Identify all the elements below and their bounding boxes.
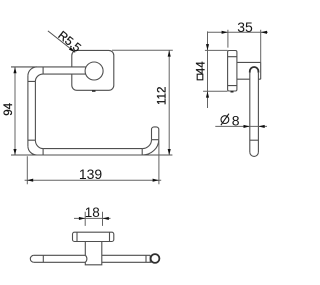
wall plate (front) bbox=[72, 50, 114, 90]
bar (bottom view) bottom edge bbox=[34, 261, 152, 263]
plate side inner lines bbox=[228, 57, 237, 86]
top-left bend inner arc bbox=[35, 74, 43, 81]
bottom-right tangent chords bbox=[142, 140, 159, 155]
tube section arc (thick) bbox=[250, 67, 259, 73]
svg-text:44: 44 bbox=[195, 61, 207, 74]
post (side) top edge bbox=[237, 61, 261, 63]
bottom-right bend outer arc bbox=[142, 140, 159, 155]
arrow 94 top bbox=[13, 67, 16, 73]
label dia symbol bbox=[221, 114, 229, 126]
plate bottom center tick bbox=[92, 90, 96, 92]
svg-text:18: 18 bbox=[85, 205, 100, 220]
wall plate (side) bbox=[228, 51, 237, 92]
post bottom edge segments bbox=[237, 78, 261, 80]
plate side bottom tick bbox=[231, 91, 234, 93]
plate bottom-view inner lines bbox=[77, 232, 110, 241]
bar tangent chord bbox=[250, 139, 259, 141]
mounting rose circle bbox=[85, 62, 103, 80]
bottom-left bend inner arc bbox=[35, 140, 43, 148]
ring bottom bar top edge bbox=[43, 148, 142, 150]
bottom-left tangent chords bbox=[28, 140, 43, 155]
arrow 44 bottom (outside, pointing up) bbox=[206, 91, 209, 97]
arrow 139 left bbox=[27, 179, 33, 182]
arm top edge + 94 extension line bbox=[11, 66, 86, 68]
dim 35 line bbox=[208, 31, 268, 33]
svg-text:8: 8 bbox=[232, 112, 240, 128]
dim 18 extension lines bbox=[85, 212, 102, 226]
dim 112 line bbox=[168, 50, 170, 155]
arrow dia8 left (outside, pointing right) bbox=[244, 125, 250, 128]
dim 35 extension lines bbox=[228, 30, 261, 63]
svg-text:94: 94 bbox=[3, 102, 15, 115]
bar (bottom view) top edge bbox=[34, 254, 150, 256]
arrow 18 right (outside, pointing left) bbox=[103, 217, 109, 220]
dim 139 line bbox=[25, 179, 162, 181]
ring bottom edge + shared bottom extension line bbox=[11, 154, 172, 156]
post bend bulge bbox=[85, 255, 87, 262]
bottom-right bend inner arc bbox=[142, 140, 151, 149]
arrow 94 bottom bbox=[13, 149, 16, 155]
bar bottom rounded cap bbox=[250, 152, 259, 156]
bar left tangent chord bbox=[42, 255, 44, 262]
arrow 139 right bbox=[153, 179, 159, 182]
plate (bottom view) bbox=[73, 232, 114, 241]
arrow 112 top bbox=[168, 50, 171, 56]
svg-text:112: 112 bbox=[156, 87, 168, 105]
arrow 44 top (outside, pointing down) bbox=[206, 44, 209, 50]
right stub with rounded top bbox=[152, 127, 159, 140]
label square44 symbol bbox=[197, 74, 203, 80]
stub section circle (thick) bbox=[151, 254, 160, 263]
arrow dia8 right (outside, pointing left) bbox=[258, 125, 264, 128]
arrow R5.5 leader bbox=[69, 47, 75, 52]
svg-text:139: 139 bbox=[79, 166, 103, 182]
arrow 112 bottom bbox=[168, 149, 171, 155]
dim 18 line bbox=[74, 217, 111, 219]
arrow 35 left (outside, pointing right) bbox=[222, 31, 228, 34]
top-left tangent chords bbox=[28, 67, 43, 82]
post right edge bbox=[260, 62, 262, 79]
dim 44 line bbox=[207, 31, 209, 108]
R5.5 leader line bbox=[48, 31, 75, 53]
post (bottom view) bbox=[85, 242, 102, 265]
ring bar (side) edges bbox=[250, 73, 259, 153]
dim 139 extension lines bbox=[27, 141, 159, 185]
bar right end lines bbox=[146, 255, 150, 262]
top-left bend outer arc bbox=[28, 67, 37, 76]
dim 94 line bbox=[14, 67, 16, 155]
bar left rounded end bbox=[30, 255, 33, 262]
arrow 35 right (outside, pointing left) bbox=[261, 31, 267, 34]
dim 44 extension lines bbox=[203, 50, 228, 91]
dim 112 extension line top bbox=[112, 49, 173, 51]
arm bottom edge bbox=[43, 73, 86, 75]
dim dia8 line bbox=[215, 125, 267, 127]
ring left vertical bar bbox=[28, 76, 36, 146]
svg-text:35: 35 bbox=[237, 19, 253, 35]
bottom-left bend outer arc bbox=[28, 146, 37, 155]
arrow 18 left (outside, pointing right) bbox=[79, 217, 85, 220]
